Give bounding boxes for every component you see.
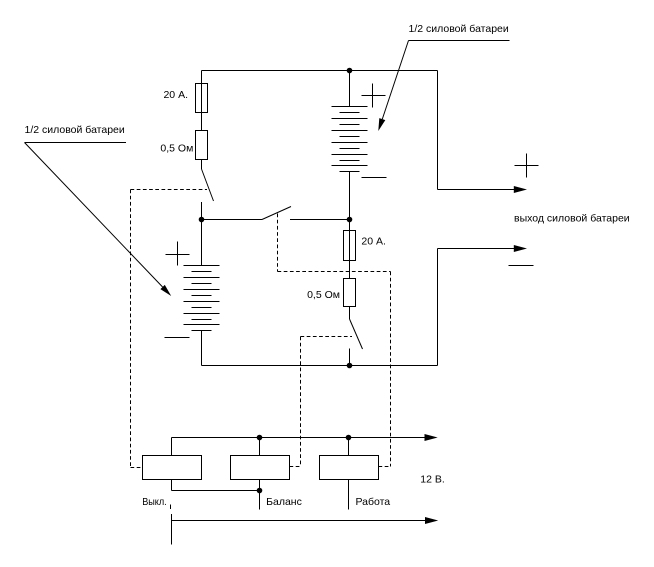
svg-text:Работа: Работа bbox=[356, 496, 391, 508]
svg-text:выход силовой батареи: выход силовой батареи bbox=[514, 213, 630, 225]
svg-text:20 А.: 20 А. bbox=[163, 89, 188, 101]
svg-text:12 В.: 12 В. bbox=[420, 474, 445, 486]
svg-text:0,5 Ом: 0,5 Ом bbox=[307, 289, 340, 301]
svg-text:1/2 силовой батареи: 1/2 силовой батареи bbox=[409, 23, 509, 35]
svg-text:0,5 Ом: 0,5 Ом bbox=[160, 143, 193, 155]
svg-text:20 А.: 20 А. bbox=[361, 236, 386, 248]
svg-text:Выкл.: Выкл. bbox=[142, 496, 167, 508]
svg-text:Баланс: Баланс bbox=[266, 496, 302, 508]
svg-text:1/2 силовой батареи: 1/2 силовой батареи bbox=[25, 124, 125, 136]
